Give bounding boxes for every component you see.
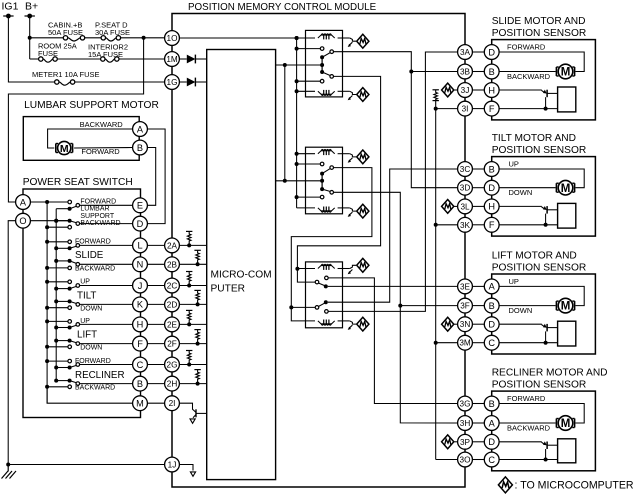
wire <box>147 285 164 287</box>
connector sensor D g1 <box>484 45 499 60</box>
svg-text:3P: 3P <box>460 438 471 447</box>
wire to 3B <box>411 71 457 73</box>
diamond M to microcomputer at 3J <box>442 83 458 97</box>
wire 1J to arrow <box>179 465 193 471</box>
label BACKWARD g1 <box>507 72 551 81</box>
box micro-computer <box>207 50 276 480</box>
label BACKWARD lumbar <box>80 120 124 129</box>
svg-text:B: B <box>137 143 143 153</box>
label RECLINER <box>75 370 125 381</box>
wire to 3F <box>400 305 457 307</box>
svg-text:M: M <box>136 399 144 409</box>
svg-text:C: C <box>488 455 495 465</box>
diamond M to microcomputer at 3L <box>442 200 458 214</box>
motor M g3 <box>556 298 574 313</box>
connector 2G <box>165 357 180 372</box>
svg-text:DOWN: DOWN <box>80 345 102 352</box>
relay K3 box <box>306 262 343 328</box>
label LUMBAR <box>80 206 109 213</box>
svg-text:D: D <box>488 183 495 193</box>
svg-text:K: K <box>137 300 144 310</box>
connector switch C <box>133 357 148 372</box>
resistor pull-up 2C <box>179 272 206 288</box>
motor M g1 <box>556 64 574 79</box>
svg-text:BACKWARD: BACKWARD <box>75 385 115 392</box>
svg-text:E: E <box>137 201 143 211</box>
label POSITION SENSOR 2 <box>492 145 587 156</box>
wire relay K2 wiper2 to 3F and 3H <box>334 192 458 423</box>
wire <box>472 51 484 53</box>
wire motor row2 g3 <box>499 305 555 307</box>
svg-text:M: M <box>561 67 571 79</box>
label RECLINER MOTOR AND <box>492 368 608 379</box>
wire pot row3 g2 <box>499 205 542 207</box>
svg-text:A: A <box>489 418 496 428</box>
wire pot row4 g4 <box>499 459 557 461</box>
junction 1O bus <box>295 36 299 40</box>
svg-text:LIFT MOTOR AND: LIFT MOTOR AND <box>492 251 577 262</box>
label BACKWARD g4 <box>507 423 551 432</box>
svg-text:D: D <box>488 47 495 57</box>
svg-text:C: C <box>137 360 144 370</box>
wire to 3O <box>436 459 458 461</box>
diamond M to microcomputer at 3P <box>442 435 458 449</box>
junction O bus <box>54 219 58 223</box>
box tilt motor and <box>492 157 596 237</box>
motor M g2 <box>556 180 574 195</box>
resistor pull-up 2B <box>179 250 206 266</box>
wire <box>472 342 484 344</box>
wire ground junction to 1J <box>8 464 164 466</box>
label LIFT <box>77 330 97 341</box>
svg-text:M: M <box>60 143 69 155</box>
svg-text:3E: 3E <box>460 282 471 291</box>
wire sensor bus <box>435 105 437 460</box>
label LUMBAR SUPPORT MOTOR <box>24 100 159 111</box>
label DOWN tilt <box>80 305 102 312</box>
svg-text:3G: 3G <box>460 399 471 408</box>
connector 2C <box>165 278 180 293</box>
switch tilt <box>45 280 133 310</box>
svg-text:POSITION SENSOR: POSITION SENSOR <box>492 380 587 391</box>
svg-text:B+: B+ <box>25 1 38 13</box>
wire <box>472 422 484 424</box>
label DOWN g2 <box>509 188 533 197</box>
connector sensor D g4 <box>484 434 499 449</box>
wire <box>147 343 164 345</box>
svg-text:3D: 3D <box>460 184 471 193</box>
svg-text:METER1 10A FUSE: METER1 10A FUSE <box>32 70 100 79</box>
legend text TO MICROCOMPUTER <box>515 479 634 491</box>
svg-text:FUSE: FUSE <box>38 49 58 58</box>
label METER1 10A FUSE <box>32 70 100 79</box>
connector 3K <box>458 217 473 232</box>
wire O to ground and 1J <box>8 221 15 465</box>
svg-text:POSITION MEMORY CONTROL MODULE: POSITION MEMORY CONTROL MODULE <box>188 2 377 13</box>
label BACKWARD lumbar switch <box>80 220 120 227</box>
potentiometer wiper g2 <box>542 206 558 227</box>
connector sensor H g1 <box>484 83 499 98</box>
label UP tilt <box>80 279 90 286</box>
wire <box>147 263 164 265</box>
label FORWARD slide <box>75 239 111 246</box>
svg-text:50A FUSE: 50A FUSE <box>48 28 83 37</box>
wire pot row3 g4 <box>499 441 542 443</box>
connector switch N <box>133 257 148 272</box>
svg-text:A: A <box>20 197 27 207</box>
label CABIN.+B 50A FUSE <box>48 21 83 38</box>
svg-text:LIFT: LIFT <box>77 330 97 341</box>
wire relay K3 contact to 3G <box>328 278 458 404</box>
terminal IG1 <box>3 14 13 19</box>
junction fused B+ <box>142 36 146 40</box>
connector 1G <box>165 75 180 90</box>
svg-text:2E: 2E <box>167 320 178 329</box>
svg-text:LUMBAR SUPPORT MOTOR: LUMBAR SUPPORT MOTOR <box>24 100 159 111</box>
wire <box>147 303 164 305</box>
connector sensor F g2 <box>484 217 499 232</box>
connector sensor D g3 <box>484 317 499 332</box>
svg-text:1M: 1M <box>166 55 178 64</box>
svg-text:15A FUSE: 15A FUSE <box>88 50 123 59</box>
label FORWARD recliner <box>75 358 111 365</box>
wire relay K3 switch2b to 3A <box>328 52 458 311</box>
label UP g2 <box>509 159 519 168</box>
fuse INTERIOR2 15A <box>101 57 119 62</box>
connector 3L <box>458 199 473 214</box>
ground <box>2 465 17 479</box>
label POSITION SENSOR 4 <box>492 380 587 391</box>
svg-text:IG1: IG1 <box>2 1 19 13</box>
box position memory control module <box>172 14 465 488</box>
svg-text:3N: 3N <box>460 320 471 329</box>
svg-text:M: M <box>561 418 571 430</box>
svg-text:2G: 2G <box>167 360 178 369</box>
switch slide <box>45 240 133 270</box>
connector D <box>133 216 148 231</box>
wire <box>147 402 164 404</box>
svg-text:BACKWARD: BACKWARD <box>507 423 551 432</box>
connector 2H <box>165 376 180 391</box>
bus O pole vertical <box>55 209 57 381</box>
svg-text:2B: 2B <box>167 260 178 269</box>
box lumbar support motor <box>23 117 139 161</box>
connector sensor B g2 <box>484 162 499 177</box>
wire lumbar A to D <box>147 129 165 224</box>
svg-text:FORWARD: FORWARD <box>507 42 546 51</box>
connector sensor B g3 <box>484 298 499 313</box>
svg-text:3M: 3M <box>459 339 471 348</box>
connector lumbar B <box>133 140 148 155</box>
svg-text:B: B <box>489 399 495 409</box>
svg-text:RECLINER: RECLINER <box>75 370 125 381</box>
svg-text:A: A <box>137 124 144 134</box>
junction 3F tap <box>398 304 402 308</box>
label SLIDE <box>75 250 104 261</box>
wire to 3M <box>436 342 458 344</box>
connector switch F <box>133 336 148 351</box>
connector lumbar A <box>133 122 148 137</box>
svg-text:2C: 2C <box>167 281 178 290</box>
label LIFT MOTOR AND <box>492 251 577 262</box>
svg-text:BACKWARD: BACKWARD <box>507 72 551 81</box>
svg-text:3A: 3A <box>460 48 471 57</box>
wire <box>472 187 484 189</box>
box lift motor and <box>492 274 596 354</box>
potentiometer wiper g1 <box>542 90 558 111</box>
svg-text:O: O <box>19 216 26 226</box>
box slide motor and <box>492 40 596 120</box>
resistor pull-up 2D <box>179 290 206 306</box>
wire lumbar B to E <box>147 148 155 206</box>
connector switch O <box>16 213 31 228</box>
label POSITION MEMORY CONTROL MODULE <box>188 2 377 13</box>
wire <box>472 205 484 207</box>
wire <box>147 364 164 366</box>
svg-text:M: M <box>561 301 571 313</box>
connector 1M <box>165 52 180 67</box>
svg-text:BACKWARD: BACKWARD <box>75 266 115 273</box>
svg-text:1G: 1G <box>167 78 178 87</box>
motor lumbar M1 <box>56 141 73 154</box>
box recliner motor and <box>492 391 596 471</box>
junction common link top <box>283 63 287 67</box>
connector 3F <box>458 298 473 313</box>
connector switch A <box>16 195 31 210</box>
svg-text:POWER SEAT SWITCH: POWER SEAT SWITCH <box>23 177 133 188</box>
label POSITION SENSOR 1 <box>492 28 587 39</box>
svg-text:3I: 3I <box>462 105 469 114</box>
svg-text:B: B <box>489 164 495 174</box>
label BACKWARD recliner <box>75 385 115 392</box>
diode D2 <box>179 78 206 87</box>
wire micro common to relay K2 <box>276 180 323 182</box>
label FORWARD lumbar <box>81 147 120 156</box>
wire pot row4 g3 <box>499 342 557 344</box>
wire pot row4 g2 <box>499 224 557 226</box>
wire <box>472 168 484 170</box>
connector sensor C g3 <box>484 335 499 350</box>
connector sensor C g4 <box>484 452 499 467</box>
svg-text:1O: 1O <box>167 34 178 43</box>
resistor pull-up 2G <box>179 351 206 367</box>
svg-text:FORWARD: FORWARD <box>75 239 111 246</box>
svg-text:2D: 2D <box>167 300 178 309</box>
wire pot row3 g1 <box>499 89 542 91</box>
connector 3B <box>458 64 473 79</box>
connector switch M <box>133 396 148 411</box>
wire to 3K <box>436 224 458 226</box>
svg-text:BACKWARD: BACKWARD <box>80 120 124 129</box>
svg-text:FORWARD: FORWARD <box>75 358 111 365</box>
relay K3 coil 1 <box>295 258 369 274</box>
wire METER fuse to 1G <box>75 81 165 83</box>
resistor pull-up 2F <box>179 330 206 346</box>
label TILT <box>77 290 96 301</box>
fuse ROOM 25A <box>39 57 58 62</box>
connector sensor F g1 <box>484 101 499 116</box>
svg-text:LUMBAR: LUMBAR <box>80 206 109 213</box>
fuse CABIN.+B 50A <box>63 36 84 41</box>
connector E <box>133 198 148 213</box>
label POWER SEAT SWITCH <box>23 177 133 188</box>
legend diamond M <box>498 477 512 493</box>
connector sensor A g3 <box>484 279 499 294</box>
wire <box>472 285 484 287</box>
connector switch J <box>133 278 148 293</box>
wire <box>472 224 484 226</box>
connector 2E <box>165 317 180 332</box>
wire <box>472 305 484 307</box>
connector 3G <box>458 396 473 411</box>
diode D1 <box>179 55 206 64</box>
wire O to pole bus <box>30 220 67 222</box>
svg-text:3C: 3C <box>460 165 471 174</box>
connector 3D <box>458 180 473 195</box>
junction 3B tap <box>409 70 413 74</box>
svg-text:PUTER: PUTER <box>211 283 246 294</box>
relay K3 coil 2 <box>291 307 369 331</box>
wire common link vertical <box>284 65 286 181</box>
svg-text:2I: 2I <box>169 399 176 408</box>
connector 2I <box>165 396 180 411</box>
svg-text:SLIDE MOTOR AND: SLIDE MOTOR AND <box>492 16 586 27</box>
junction 3M <box>434 341 438 345</box>
connector sensor D g2 <box>484 180 499 195</box>
svg-text:FORWARD: FORWARD <box>507 394 546 403</box>
svg-text:DOWN: DOWN <box>509 306 533 315</box>
wire motor row2 g2 <box>499 187 555 189</box>
svg-text:F: F <box>489 220 495 230</box>
connector 3P <box>458 434 473 449</box>
wire B+ to fuse CABIN <box>30 37 64 39</box>
wire <box>147 244 164 246</box>
resistor pull-up 2H <box>179 370 206 386</box>
svg-text:3H: 3H <box>460 419 471 428</box>
svg-text:N: N <box>137 260 144 270</box>
wire fuse to junction <box>121 37 144 39</box>
wire <box>472 403 484 405</box>
motor M g4 <box>556 416 574 431</box>
connector 3N <box>458 317 473 332</box>
transistor Q1 at 2I <box>179 403 206 423</box>
connector 1O <box>165 31 180 46</box>
label ROOM 25A FUSE <box>38 42 77 59</box>
connector sensor B g4 <box>484 396 499 411</box>
svg-text:MICRO-COM: MICRO-COM <box>211 269 272 280</box>
svg-text:3O: 3O <box>460 455 471 464</box>
svg-text:1J: 1J <box>168 460 177 469</box>
wire <box>147 323 164 325</box>
box power seat switch <box>23 189 141 418</box>
node IG1 label <box>2 1 19 13</box>
wire <box>472 108 484 110</box>
wire IG1 down to meter fuse row <box>8 16 54 82</box>
label UP g3 <box>509 277 519 286</box>
ground arrow 1J <box>190 472 195 476</box>
wire relay K3 switch2 to 3C <box>328 169 458 302</box>
connector 3O <box>458 452 473 467</box>
relay K3 switch 1 <box>297 269 328 289</box>
connector 2D <box>165 297 180 312</box>
connector 3H <box>458 416 473 431</box>
svg-text:F: F <box>137 339 143 349</box>
wire M common <box>47 387 133 403</box>
connector switch L <box>133 238 148 253</box>
svg-text:C: C <box>488 338 495 348</box>
connector 3E <box>458 279 473 294</box>
wire fuse to fuse <box>85 37 101 39</box>
wire <box>147 383 164 385</box>
junction common link bottom <box>283 179 287 183</box>
bus A feed vertical <box>46 202 48 403</box>
connector 2B <box>165 257 180 272</box>
box position sensor g1 <box>558 87 576 112</box>
label DOWN g3 <box>509 306 533 315</box>
wire ROOM fuse to INTERIOR2 fuse <box>57 58 100 60</box>
label FORWARD g4 <box>507 394 546 403</box>
bus relay power vertical <box>296 38 298 208</box>
wire lumbar A to motor <box>48 129 133 148</box>
svg-text:B: B <box>489 301 495 311</box>
svg-text:DOWN: DOWN <box>80 305 102 312</box>
box position sensor g3 <box>558 321 576 346</box>
svg-text:UP: UP <box>80 279 90 286</box>
svg-text:DOWN: DOWN <box>509 188 533 197</box>
svg-text:3J: 3J <box>461 86 470 95</box>
wire <box>472 441 484 443</box>
wire relay K3 switch1 to 3E <box>328 285 458 287</box>
svg-text:A: A <box>489 282 496 292</box>
svg-text:30A FUSE: 30A FUSE <box>95 28 130 37</box>
terminal B+ <box>25 14 35 19</box>
junction B+ row1 <box>28 36 32 40</box>
connector 3M <box>458 335 473 350</box>
label SLIDE MOTOR AND <box>492 16 586 27</box>
wire motor to lumbar B <box>74 147 133 150</box>
label BACKWARD slide <box>75 266 115 273</box>
diamond M to microcomputer at 3N <box>442 317 458 331</box>
box position sensor g4 <box>558 439 576 463</box>
wire to 3I <box>436 108 458 110</box>
label FORWARD lumbar switch <box>80 199 116 206</box>
svg-text:2H: 2H <box>167 380 178 389</box>
switch lumbar support <box>45 200 133 229</box>
svg-text:UP: UP <box>80 318 90 325</box>
wire B+ down <box>29 16 31 59</box>
label PUTER <box>211 283 246 294</box>
wire motor row2 g1 <box>499 71 555 73</box>
resistor R1 sensor pull-up <box>433 90 439 105</box>
label POSITION SENSOR 3 <box>492 263 587 274</box>
wire relay K2 wiper1 to K3 left bus <box>291 168 372 308</box>
svg-text:POSITION SENSOR: POSITION SENSOR <box>492 263 587 274</box>
svg-text:TILT MOTOR AND: TILT MOTOR AND <box>492 133 576 144</box>
svg-text:TILT: TILT <box>77 290 96 301</box>
svg-text:RECLINER MOTOR AND: RECLINER MOTOR AND <box>492 368 608 379</box>
wire row2 B+ to ROOM fuse <box>30 58 39 60</box>
connector 1J <box>165 457 180 472</box>
svg-text:H: H <box>488 85 495 95</box>
fuse P.SEAT D 30A <box>101 36 121 41</box>
wire A to contact bus <box>30 201 68 203</box>
wire motor row1 g2 <box>499 169 584 188</box>
svg-text:D: D <box>488 320 495 330</box>
svg-text:H: H <box>488 202 495 212</box>
wire motor row2 g4 <box>499 422 555 424</box>
svg-text:D: D <box>488 437 495 447</box>
relay K1 slide <box>295 30 369 101</box>
